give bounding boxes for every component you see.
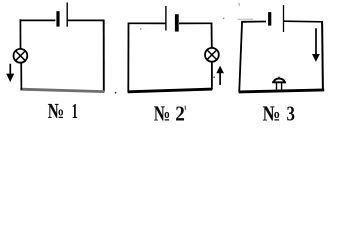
- wire bottom C2: [128, 89, 212, 92]
- wire top-left segment C1: [20, 19, 56, 21]
- speck above C3 corner: [238, 3, 241, 6]
- svg-text:№: №: [154, 101, 171, 125]
- svg-text:1: 1: [72, 99, 78, 123]
- svg-text:№: №: [263, 102, 281, 126]
- wire bottom C3: [239, 90, 324, 92]
- apostrophe speck after label 2: [184, 106, 186, 110]
- battery GB1 long thin plate: [66, 3, 68, 27]
- bell HA1 top nub: [278, 77, 280, 79]
- wire top-right segment C2: [179, 22, 212, 24]
- lamp EL1 cross: [16, 51, 26, 61]
- wire right upper C2: [211, 23, 213, 48]
- current arrow I3 (down): [315, 28, 317, 55]
- wire left side C2: [127, 23, 129, 93]
- wire right lower C2: [211, 62, 213, 90]
- gray scan shadow above C3 top wire: [238, 18, 254, 20]
- current arrow I1 (down): [9, 64, 11, 75]
- battery GB1 short thick plate: [56, 11, 59, 26]
- battery GB2 long thin plate: [165, 6, 167, 31]
- wire right side C3: [321, 21, 324, 91]
- bell HA1 left leg: [276, 83, 278, 92]
- speck in C2: [213, 76, 215, 78]
- battery GB2 short thick plate: [175, 14, 179, 31]
- lamp EL2 cross: [207, 50, 217, 60]
- bell HA1 right leg: [281, 83, 283, 92]
- svg-text:3: 3: [287, 102, 296, 126]
- wire bottom C1 (gray): [20, 89, 104, 91]
- wire top-right segment C1: [67, 19, 104, 21]
- bell HA1 base bar: [272, 81, 286, 83]
- wire left upper C1: [19, 19, 21, 49]
- wire top-right segment C3: [284, 20, 323, 23]
- battery GB3 short thick plate: [268, 12, 271, 26]
- lamp EL2 circle: [205, 48, 219, 62]
- svg-text:№: №: [48, 99, 65, 123]
- bell HA1 dome arc: [274, 78, 285, 82]
- wire left lower C1: [20, 63, 22, 90]
- wire left side C3: [239, 21, 242, 93]
- speck near C1 bottom right: [115, 92, 117, 94]
- lamp EL1 circle: [14, 49, 28, 63]
- wire top-left segment C3: [242, 21, 266, 23]
- battery GB3 long thin plate: [283, 5, 285, 32]
- wire right side C1: [103, 20, 105, 92]
- svg-text:2: 2: [175, 101, 185, 125]
- current arrow I2 (up): [219, 73, 221, 85]
- wire top-left segment C2: [128, 22, 166, 24]
